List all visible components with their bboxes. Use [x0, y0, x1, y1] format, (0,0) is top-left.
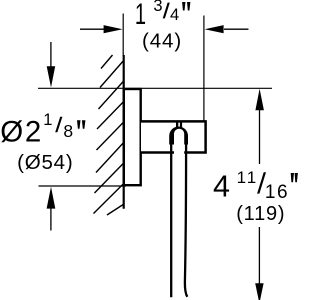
119 dimension line upper segment + up arrow: [255, 89, 264, 164]
dimension line 44 right arrow: [205, 25, 249, 33]
dimension line 44 left arrow: [80, 25, 123, 33]
wall hatching: [94, 55, 124, 215]
svg-text:3: 3: [153, 0, 162, 15]
extension line (wall face, top, for 44 dim): [122, 14, 124, 57]
119 dimension line lower segment + down arrow: [255, 227, 263, 300]
flange plate: [124, 89, 141, 185]
rod left edge: [170, 140, 172, 297]
svg-text:4: 4: [170, 6, 179, 24]
arm bracket: [141, 121, 206, 152]
text 4 11/16": [213, 168, 298, 204]
diameter dim top arrow (down): [47, 42, 56, 88]
svg-text:4: 4: [213, 169, 230, 203]
svg-text:8: 8: [63, 121, 73, 141]
svg-text:Ø2: Ø2: [0, 116, 43, 149]
svg-text:1: 1: [135, 0, 146, 31]
wall face line: [123, 55, 125, 209]
diameter dim bottom arrow (up): [47, 187, 56, 231]
rod right edge: [185, 140, 187, 297]
hook ball: [169, 126, 188, 144]
svg-text:1: 1: [43, 111, 52, 129]
extension line flange top / 119 top reference: [38, 87, 272, 89]
text 1 3/4": [135, 0, 191, 31]
svg-text:(44): (44): [142, 30, 182, 53]
hook pin: [176, 121, 178, 128]
text Ø2 1/8": [0, 111, 85, 149]
rod interior (white): [174, 129, 184, 297]
svg-text:(119): (119): [236, 203, 285, 225]
svg-text:(Ø54): (Ø54): [17, 151, 73, 174]
extension line flange bottom: [39, 185, 127, 187]
svg-text:16: 16: [265, 182, 289, 203]
extension line (right, for 44 dim): [203, 16, 205, 121]
svg-text:11: 11: [237, 168, 259, 187]
